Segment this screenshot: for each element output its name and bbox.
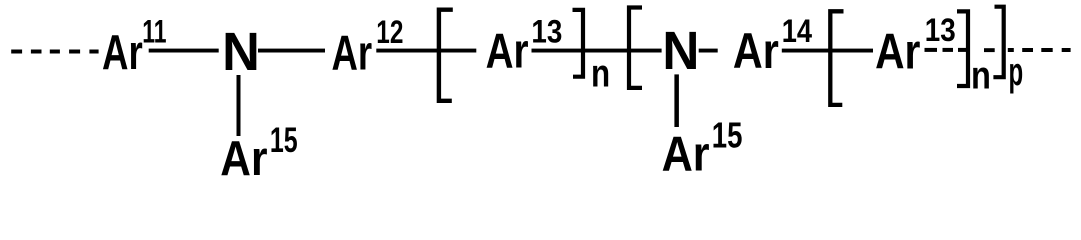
opening square bracket 3 — [830, 11, 843, 105]
closing square bracket 1 — [573, 10, 584, 77]
opening square bracket 2 — [629, 8, 642, 88]
svg-text:15: 15 — [270, 121, 298, 160]
svg-text:Ar: Ar — [332, 26, 373, 80]
svg-text:N: N — [222, 22, 260, 82]
dashed bond Ar13 to closing bracket — [925, 48, 969, 52]
svg-text:Ar: Ar — [662, 126, 710, 181]
bond Ar12-[ -Ar13 — [376, 49, 476, 53]
leading dashed bond (chain continuation) — [11, 50, 98, 54]
svg-text:p: p — [1009, 49, 1024, 94]
opening square bracket 1 — [439, 10, 453, 101]
svg-text:Ar: Ar — [875, 23, 921, 79]
svg-text:n: n — [971, 53, 991, 98]
svg-text:Ar: Ar — [733, 22, 779, 79]
trailing dashed bond (chain continuation) — [1008, 48, 1071, 52]
closing square bracket 3 — [993, 7, 1003, 78]
bond Ar11-N — [149, 49, 219, 53]
svg-text:n: n — [591, 52, 610, 95]
svg-text:Ar: Ar — [486, 24, 529, 78]
closing square bracket 2 — [957, 11, 968, 86]
svg-text:Ar: Ar — [102, 26, 143, 80]
svg-text:Ar: Ar — [220, 130, 267, 184]
vertical bond N-Ar15 (second) — [674, 74, 679, 127]
svg-text:14: 14 — [782, 14, 813, 50]
svg-text:15: 15 — [712, 115, 743, 155]
bond Ar13-]n-[-N — [532, 49, 662, 53]
bond N-Ar12 — [258, 49, 325, 53]
svg-text:N: N — [662, 21, 699, 82]
svg-text:11: 11 — [142, 14, 166, 50]
svg-text:13: 13 — [925, 13, 956, 48]
svg-text:12: 12 — [376, 15, 403, 51]
bond Ar14-[-Ar13 — [782, 49, 873, 53]
bond N-Ar14 — [699, 49, 718, 53]
dashed bond between closing brackets — [984, 48, 995, 52]
vertical bond N-Ar15 (first) — [237, 75, 241, 136]
svg-text:13: 13 — [531, 15, 562, 50]
